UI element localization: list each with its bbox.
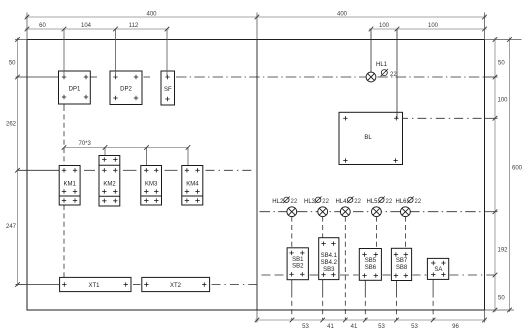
contactor KM2 — [99, 156, 120, 207]
svg-text:50: 50 — [9, 61, 16, 67]
svg-text:SB3: SB3 — [323, 267, 335, 273]
svg-text:53: 53 — [378, 324, 385, 330]
wire: column below SA to bottom dim — [432, 279, 434, 320]
svg-text:60: 60 — [39, 23, 46, 29]
svg-text:22: 22 — [415, 199, 422, 205]
panel center divider line — [256, 40, 258, 311]
indicator lamp HL1 — [366, 29, 397, 82]
wire: column below SB7 to bottom dim — [396, 281, 398, 321]
indicator lamp HL4 with label — [336, 197, 362, 217]
indicator lamp HL6 with label — [396, 197, 422, 217]
axis centerline through XT1 XT2 row y=284.5 — [16, 284, 257, 286]
right inner dimension column 50 100 192 50 — [485, 38, 498, 313]
svg-text:22: 22 — [390, 72, 397, 78]
push buttons SB5 SB6 — [359, 249, 381, 281]
svg-text:SB4.1: SB4.1 — [321, 253, 338, 259]
svg-text:KM1: KM1 — [64, 181, 77, 187]
svg-text:HL2: HL2 — [272, 199, 284, 205]
svg-text:SB6: SB6 — [365, 265, 377, 271]
circuit breaker DP2 — [110, 71, 142, 105]
bottom dimension row 53 41 41 53 53 96 — [255, 310, 487, 323]
svg-text:SB4.2: SB4.2 — [321, 260, 338, 266]
svg-text:XT1: XT1 — [88, 283, 100, 289]
dimension row 100 100 (right panel) — [369, 28, 487, 30]
svg-text:70*3: 70*3 — [79, 141, 92, 147]
svg-text:SB8: SB8 — [396, 265, 408, 271]
terminal strip XT2 — [142, 277, 210, 291]
svg-text:SA: SA — [434, 267, 442, 273]
svg-text:XT2: XT2 — [170, 283, 182, 289]
svg-text:96: 96 — [452, 324, 459, 330]
svg-text:41: 41 — [351, 324, 358, 330]
svg-text:SF: SF — [164, 87, 172, 93]
axis centerline through BL top mounting holes y=118.3 — [399, 117, 498, 119]
bell transformer BL — [339, 112, 403, 164]
svg-text:100: 100 — [379, 23, 390, 29]
svg-text:BL: BL — [364, 135, 372, 141]
svg-text:262: 262 — [6, 122, 17, 128]
svg-text:100: 100 — [498, 98, 509, 104]
selector switch SA — [427, 258, 448, 279]
breaker SF — [161, 71, 175, 105]
svg-text:HL1: HL1 — [376, 62, 388, 68]
svg-text:SB1: SB1 — [292, 257, 304, 263]
axis centerline through KM row y=170.3 — [17, 169, 252, 171]
svg-text:100: 100 — [428, 23, 439, 29]
extension of lamp row axis to right dimension line — [485, 211, 498, 213]
svg-text:SB7: SB7 — [396, 258, 408, 264]
svg-text:HL5: HL5 — [367, 199, 379, 205]
svg-text:22: 22 — [354, 199, 361, 205]
wire: vertical from top dimension to BL mounting hole x=397 — [396, 29, 398, 118]
push buttons SB1 SB2 — [287, 248, 308, 280]
svg-text:53: 53 — [302, 324, 309, 330]
axis centerline through HL2-HL6 lamp row y=211.7 — [260, 211, 485, 213]
svg-text:SB2: SB2 — [292, 264, 304, 270]
wire: column below SB5 to bottom dim — [364, 280, 366, 320]
svg-text:112: 112 — [129, 23, 139, 29]
svg-text:HL3: HL3 — [304, 199, 316, 205]
push buttons SB4.1 SB4.2 SB3 — [319, 238, 339, 280]
svg-text:50: 50 — [498, 61, 505, 67]
circuit breaker DP1 — [59, 71, 91, 104]
contactor KM3 — [141, 166, 162, 206]
svg-text:400: 400 — [337, 12, 348, 18]
svg-text:DP1: DP1 — [69, 87, 81, 93]
right outer dimension 600 — [485, 38, 522, 313]
svg-text:50: 50 — [498, 296, 505, 302]
indicator lamp HL3 with label — [304, 197, 330, 217]
wire: dashed column HL4 down to bottom dim — [344, 217, 346, 320]
svg-text:400: 400 — [146, 12, 157, 18]
svg-text:HL6: HL6 — [396, 199, 408, 205]
svg-text:22: 22 — [386, 199, 393, 205]
svg-text:HL4: HL4 — [336, 199, 348, 205]
svg-text:41: 41 — [327, 324, 334, 330]
panel outline — [27, 40, 485, 311]
svg-text:53: 53 — [411, 324, 418, 330]
svg-text:KM2: KM2 — [103, 181, 116, 187]
dimension row 60 104 112 (left panel) — [25, 29, 169, 77]
wire: dashed column HL3 to SB4 and down to bottom dim — [322, 217, 324, 320]
wire: dashed column from DP1 down through KM1 to XT1 x=64 — [63, 97, 65, 277]
svg-text:192: 192 — [498, 248, 509, 254]
wire: dashed column HL2 to SB1 and down to bottom dim — [291, 217, 293, 320]
left dimension column 50 262 247 — [15, 38, 27, 287]
svg-text:22: 22 — [322, 199, 329, 205]
dimension row 400 + 400 top — [25, 13, 487, 40]
terminal strip XT1 — [60, 277, 131, 291]
svg-text:SB5: SB5 — [365, 258, 377, 264]
wire: dashed column HL5 to SB5 — [375, 217, 377, 249]
axis centerline through SB/SA button row y=275 — [262, 274, 498, 276]
svg-text:KM4: KM4 — [186, 181, 199, 187]
svg-text:KM3: KM3 — [145, 181, 158, 187]
indicator lamp HL2 with label — [272, 197, 298, 217]
axis centerline through DP1 DP2 SF HL1 row y=77 — [16, 76, 498, 78]
svg-text:DP2: DP2 — [120, 87, 132, 93]
contactor KM4 — [182, 166, 203, 206]
push buttons SB7 SB8 — [391, 248, 411, 280]
svg-text:22: 22 — [291, 199, 298, 205]
contactor KM1 — [59, 166, 80, 206]
indicator lamp HL5 with label — [367, 197, 393, 217]
svg-text:600: 600 — [512, 166, 523, 172]
svg-text:104: 104 — [81, 23, 92, 29]
wire: dashed column HL6 to SB7 — [404, 217, 406, 249]
svg-text:247: 247 — [6, 224, 17, 230]
dimension 70*3 over KM contactors — [64, 148, 188, 171]
